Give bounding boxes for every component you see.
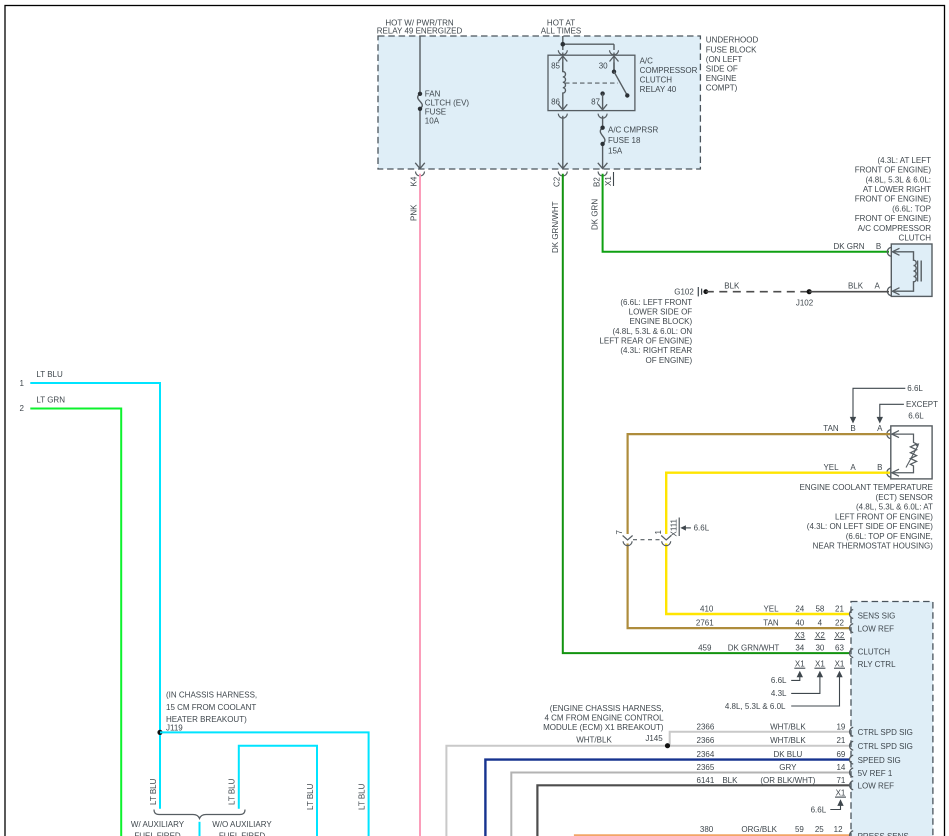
svg-text:A/C CMPRSR: A/C CMPRSR (608, 125, 658, 134)
svg-text:NEAR THERMOSTAT HOUSING): NEAR THERMOSTAT HOUSING) (813, 542, 934, 551)
svg-text:12: 12 (834, 825, 843, 834)
svg-text:X111: X111 (670, 518, 679, 536)
svg-text:RELAY 40: RELAY 40 (640, 85, 677, 94)
svg-text:C2: C2 (553, 176, 562, 187)
svg-text:FRONT OF ENGINE): FRONT OF ENGINE) (855, 166, 932, 175)
svg-text:ENGINE COOLANT TEMPERATURE: ENGINE COOLANT TEMPERATURE (800, 483, 933, 492)
svg-text:DK GRN: DK GRN (591, 199, 600, 230)
svg-text:15A: 15A (608, 146, 623, 155)
svg-text:DK GRN/WHT: DK GRN/WHT (551, 201, 560, 253)
svg-text:X2: X2 (835, 631, 845, 640)
svg-text:ALL TIMES: ALL TIMES (541, 27, 581, 36)
svg-text:58: 58 (815, 605, 824, 614)
svg-text:WHT/BLK: WHT/BLK (770, 736, 806, 745)
svg-text:COMPT): COMPT) (706, 84, 738, 93)
svg-text:WHT/BLK: WHT/BLK (576, 736, 612, 745)
svg-text:6.6L: 6.6L (811, 806, 827, 815)
svg-text:FRONT OF ENGINE): FRONT OF ENGINE) (855, 195, 932, 204)
svg-text:25: 25 (815, 825, 824, 834)
svg-text:(4.8L, 5.3L & 6.0L: AT: (4.8L, 5.3L & 6.0L: AT (856, 503, 933, 512)
svg-text:(ON LEFT: (ON LEFT (706, 55, 743, 64)
svg-text:FRONT OF ENGINE): FRONT OF ENGINE) (855, 214, 932, 223)
svg-text:LOW REF: LOW REF (858, 625, 895, 634)
svg-text:FUEL FIRED: FUEL FIRED (219, 831, 266, 836)
svg-text:CTRL SPD SIG: CTRL SPD SIG (858, 728, 913, 737)
svg-text:69: 69 (836, 750, 845, 759)
svg-text:W/ AUXILIARY: W/ AUXILIARY (131, 820, 185, 829)
svg-text:85: 85 (551, 61, 560, 70)
svg-text:CLUTCH: CLUTCH (858, 648, 891, 657)
svg-text:SIDE OF: SIDE OF (706, 65, 738, 74)
svg-text:DK GRN/WHT: DK GRN/WHT (728, 644, 780, 653)
svg-text:LT BLU: LT BLU (358, 783, 367, 810)
svg-text:59: 59 (795, 825, 804, 834)
svg-text:4 CM FROM ENGINE CONTROL: 4 CM FROM ENGINE CONTROL (544, 714, 664, 723)
svg-text:(6.6L: TOP: (6.6L: TOP (892, 204, 931, 213)
svg-text:2: 2 (20, 404, 25, 413)
svg-text:X1: X1 (836, 789, 846, 798)
svg-text:4.8L, 5.3L & 6.0L: 4.8L, 5.3L & 6.0L (725, 702, 786, 711)
svg-text:5V REF 1: 5V REF 1 (858, 769, 893, 778)
svg-text:(4.8L, 5.3L & 6.0L: ON: (4.8L, 5.3L & 6.0L: ON (612, 327, 692, 336)
svg-text:21: 21 (835, 605, 844, 614)
svg-text:6.6L: 6.6L (694, 524, 710, 533)
svg-text:(ECT) SENSOR: (ECT) SENSOR (876, 493, 934, 502)
svg-text:(4.8L, 5.3L & 6.0L:: (4.8L, 5.3L & 6.0L: (865, 175, 931, 184)
svg-text:410: 410 (700, 605, 714, 614)
svg-text:PNK: PNK (410, 204, 419, 221)
svg-text:24: 24 (795, 605, 804, 614)
svg-text:(ENGINE CHASSIS HARNESS,: (ENGINE CHASSIS HARNESS, (550, 704, 664, 713)
svg-text:LT BLU: LT BLU (36, 370, 63, 379)
svg-text:(IN CHASSIS HARNESS,: (IN CHASSIS HARNESS, (166, 691, 257, 700)
svg-text:2364: 2364 (697, 750, 715, 759)
svg-text:40: 40 (795, 619, 804, 628)
svg-text:FUEL FIRED: FUEL FIRED (134, 831, 181, 836)
svg-text:COMPRESSOR: COMPRESSOR (640, 66, 698, 75)
svg-text:30: 30 (599, 61, 608, 70)
svg-text:2761: 2761 (696, 619, 714, 628)
svg-text:X2: X2 (815, 631, 825, 640)
svg-text:X1: X1 (835, 660, 845, 669)
svg-text:(6.6L: TOP OF ENGINE,: (6.6L: TOP OF ENGINE, (846, 532, 933, 541)
svg-text:FAN: FAN (425, 90, 441, 99)
svg-text:LOWER SIDE OF: LOWER SIDE OF (629, 308, 693, 317)
svg-text:CLUTCH: CLUTCH (640, 75, 673, 84)
svg-text:J145: J145 (645, 734, 663, 743)
svg-text:380: 380 (700, 825, 714, 834)
svg-text:2365: 2365 (697, 763, 715, 772)
svg-text:BLK: BLK (724, 282, 740, 291)
svg-text:B: B (850, 424, 855, 433)
svg-text:X3: X3 (795, 631, 805, 640)
svg-text:UNDERHOOD: UNDERHOOD (706, 36, 759, 45)
svg-text:OF ENGINE): OF ENGINE) (646, 356, 693, 365)
svg-text:63: 63 (835, 644, 844, 653)
svg-text:6.6L: 6.6L (771, 676, 787, 685)
svg-text:YEL: YEL (823, 463, 839, 472)
svg-text:(OR BLK/WHT): (OR BLK/WHT) (760, 776, 815, 785)
svg-text:BLK: BLK (722, 776, 738, 785)
svg-text:ORG/BLK: ORG/BLK (741, 825, 777, 834)
svg-text:14: 14 (836, 763, 845, 772)
svg-text:DK BLU: DK BLU (773, 750, 802, 759)
svg-text:B: B (877, 463, 882, 472)
svg-text:ENGINE BLOCK): ENGINE BLOCK) (630, 317, 693, 326)
svg-text:TAN: TAN (823, 424, 839, 433)
svg-text:19: 19 (836, 722, 845, 731)
svg-text:FUSE BLOCK: FUSE BLOCK (706, 45, 757, 54)
svg-text:LEFT REAR OF ENGINE): LEFT REAR OF ENGINE) (599, 337, 692, 346)
svg-text:LT BLU: LT BLU (149, 778, 158, 805)
svg-text:J119: J119 (166, 723, 183, 732)
svg-text:FUSE 18: FUSE 18 (608, 136, 641, 145)
svg-text:2366: 2366 (697, 736, 715, 745)
svg-text:YEL: YEL (763, 605, 779, 614)
svg-text:K4: K4 (410, 176, 419, 186)
svg-text:30: 30 (815, 644, 824, 653)
svg-text:4.3L: 4.3L (771, 689, 787, 698)
svg-text:TAN: TAN (763, 619, 779, 628)
svg-text:10A: 10A (425, 116, 440, 125)
svg-text:X1: X1 (815, 660, 825, 669)
svg-text:G102: G102 (674, 288, 694, 297)
svg-text:J102: J102 (796, 298, 814, 307)
svg-text:LT BLU: LT BLU (228, 778, 237, 805)
svg-text:RLY CTRL: RLY CTRL (858, 660, 896, 669)
svg-text:LT BLU: LT BLU (306, 783, 315, 810)
svg-text:CLUTCH: CLUTCH (899, 234, 932, 243)
svg-text:21: 21 (836, 736, 845, 745)
svg-text:6.6L: 6.6L (908, 411, 924, 420)
svg-text:X1: X1 (604, 176, 613, 186)
svg-text:B: B (876, 242, 881, 251)
svg-text:15 CM FROM COOLANT: 15 CM FROM COOLANT (166, 703, 256, 712)
svg-text:SPEED SIG: SPEED SIG (858, 756, 901, 765)
svg-text:GRY: GRY (779, 763, 797, 772)
svg-text:A/C COMPRESSOR: A/C COMPRESSOR (858, 224, 932, 233)
svg-text:FUSE: FUSE (425, 107, 446, 116)
svg-text:B2: B2 (593, 177, 602, 187)
svg-text:71: 71 (836, 776, 845, 785)
svg-text:CLTCH (EV): CLTCH (EV) (425, 99, 470, 108)
svg-text:1: 1 (20, 379, 25, 388)
svg-text:(4.3L: AT LEFT: (4.3L: AT LEFT (877, 156, 931, 165)
svg-text:BLK: BLK (848, 282, 864, 291)
svg-text:LT GRN: LT GRN (36, 396, 65, 405)
svg-text:EXCEPT: EXCEPT (906, 400, 938, 409)
svg-text:6141: 6141 (697, 776, 715, 785)
svg-text:ENGINE: ENGINE (706, 74, 737, 83)
svg-text:34: 34 (795, 644, 804, 653)
svg-text:MODULE (ECM) X1 BREAKOUT): MODULE (ECM) X1 BREAKOUT) (543, 723, 664, 732)
svg-text:A: A (877, 424, 883, 433)
svg-text:PRESS SENS: PRESS SENS (858, 832, 909, 836)
svg-text:SENS SIG: SENS SIG (858, 611, 896, 620)
svg-text:6.6L: 6.6L (907, 384, 923, 393)
svg-text:WHT/BLK: WHT/BLK (770, 722, 806, 731)
svg-text:X1: X1 (795, 660, 805, 669)
svg-text:(4.3L: ON LEFT SIDE OF ENGINE): (4.3L: ON LEFT SIDE OF ENGINE) (807, 522, 933, 531)
svg-text:LEFT FRONT OF ENGINE): LEFT FRONT OF ENGINE) (835, 512, 933, 521)
svg-text:A: A (875, 282, 881, 291)
svg-text:DK GRN: DK GRN (833, 242, 864, 251)
svg-text:LOW REF: LOW REF (858, 782, 895, 791)
svg-text:22: 22 (835, 619, 844, 628)
svg-text:CTRL SPD SIG: CTRL SPD SIG (858, 742, 913, 751)
svg-text:A: A (850, 463, 856, 472)
svg-text:7: 7 (615, 530, 624, 535)
svg-text:W/O AUXILIARY: W/O AUXILIARY (212, 820, 272, 829)
svg-text:2366: 2366 (697, 722, 715, 731)
svg-text:(4.3L: RIGHT REAR: (4.3L: RIGHT REAR (620, 346, 692, 355)
svg-text:(6.6L: LEFT FRONT: (6.6L: LEFT FRONT (620, 298, 692, 307)
svg-text:4: 4 (818, 619, 823, 628)
svg-text:A/C: A/C (640, 56, 654, 65)
svg-text:459: 459 (698, 644, 712, 653)
svg-text:RELAY 49 ENERGIZED: RELAY 49 ENERGIZED (377, 27, 463, 36)
svg-text:AT LOWER RIGHT: AT LOWER RIGHT (863, 185, 931, 194)
svg-text:1: 1 (654, 530, 663, 535)
